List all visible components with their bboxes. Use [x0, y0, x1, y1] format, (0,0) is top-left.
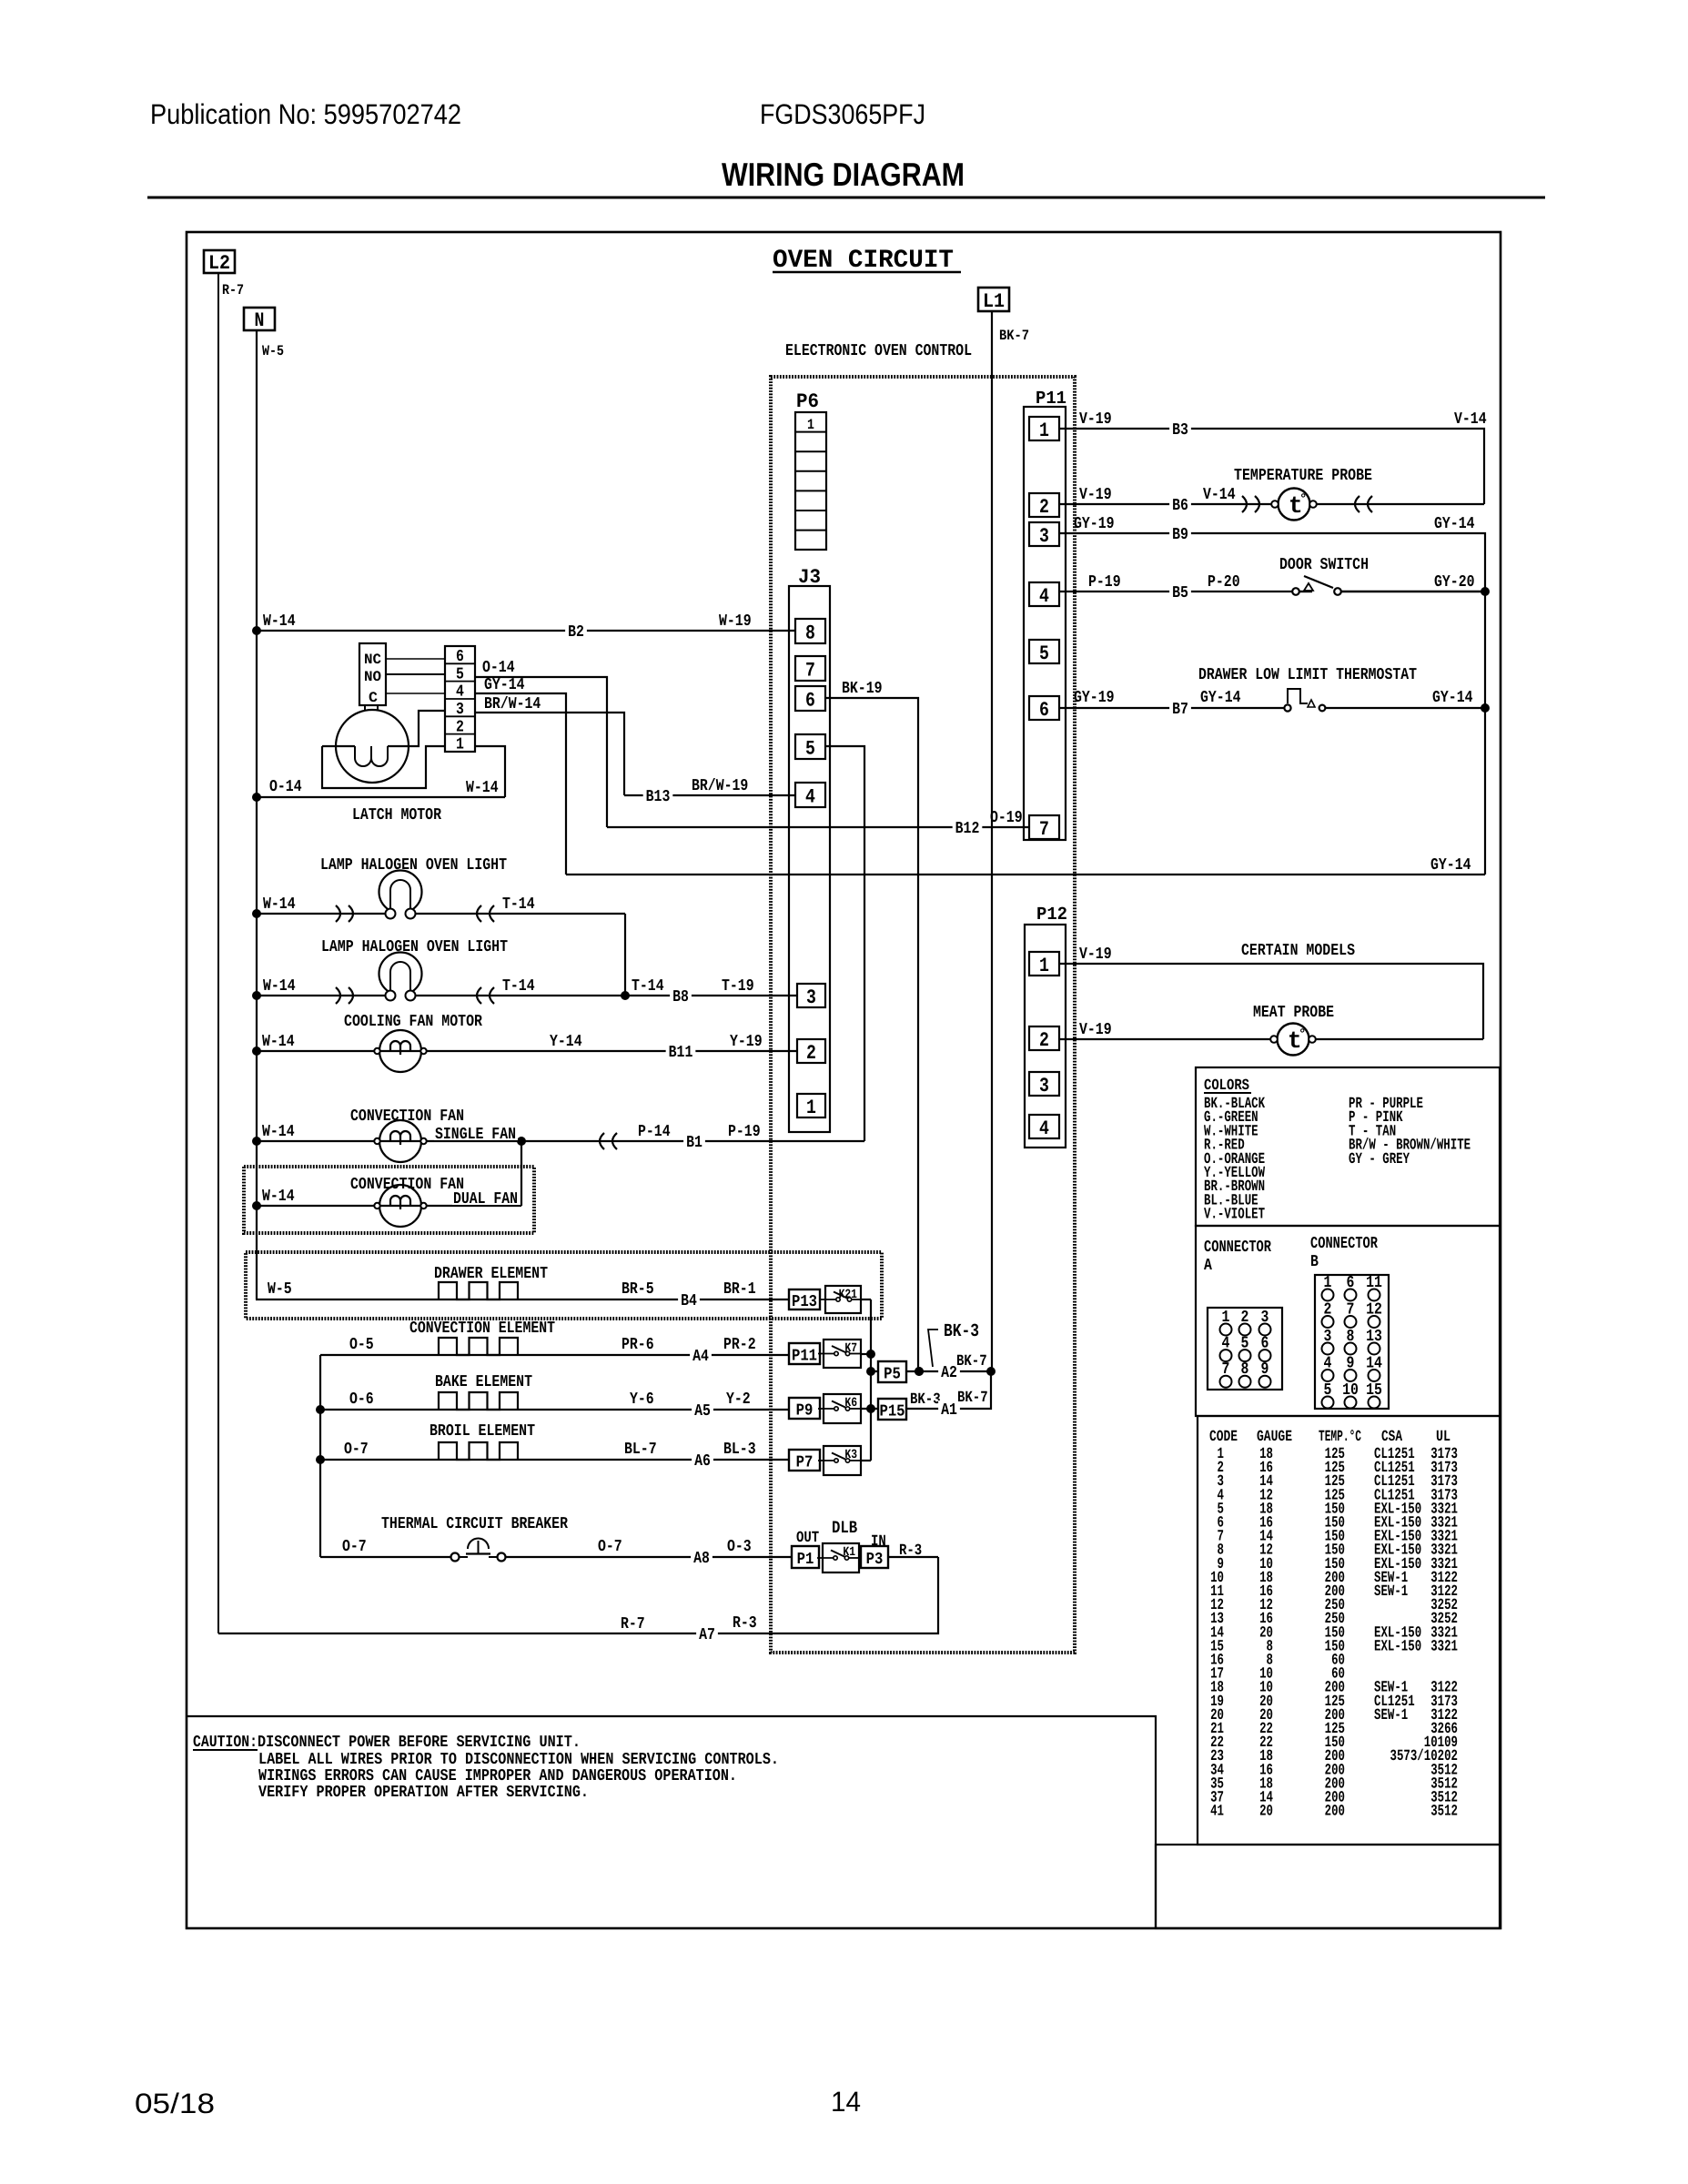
svg-text:ELECTRONIC OVEN CONTROL: ELECTRONIC OVEN CONTROL	[785, 342, 972, 360]
drawer element dashed box	[246, 1252, 882, 1319]
wire element common vertical	[319, 1355, 321, 1557]
svg-text:SEW-1: SEW-1	[1374, 1707, 1408, 1724]
wire latch pin3 BR/W-14 to B13	[475, 713, 624, 795]
connector B pin face	[1315, 1274, 1389, 1409]
svg-text:V.-VIOLET: V.-VIOLET	[1204, 1207, 1265, 1224]
wire B12 O-19 to P11 pin 7	[607, 826, 1029, 828]
svg-text:LATCH MOTOR: LATCH MOTOR	[352, 806, 441, 824]
svg-text:P6: P6	[796, 390, 819, 413]
svg-text:7: 7	[1039, 818, 1049, 841]
svg-text:5: 5	[1039, 642, 1049, 665]
convection fan single M3	[374, 1120, 426, 1162]
relay terminal P15	[878, 1399, 906, 1421]
svg-text:BK-3: BK-3	[910, 1391, 941, 1409]
wire dual convection fan row	[257, 1205, 521, 1207]
svg-text:P11: P11	[792, 1348, 817, 1366]
svg-text:B4: B4	[681, 1292, 697, 1310]
svg-text:BK-3: BK-3	[944, 1321, 979, 1342]
svg-text:T-14: T-14	[502, 895, 535, 914]
svg-text:P3: P3	[866, 1551, 884, 1569]
svg-text:SINGLE FAN: SINGLE FAN	[435, 1126, 516, 1144]
svg-text:R-3: R-3	[733, 1614, 757, 1633]
svg-text:W-5: W-5	[268, 1280, 292, 1299]
wire K6 to P15	[861, 1408, 878, 1410]
svg-text:1: 1	[1039, 420, 1049, 442]
svg-text:NO: NO	[364, 669, 381, 685]
wire GY-14 bottom run	[566, 874, 1485, 875]
wire P5 A2 BK-7 to L1 node	[906, 1370, 991, 1372]
label B3	[1169, 420, 1191, 437]
svg-text:O-5: O-5	[349, 1336, 374, 1354]
svg-text:CONVECTION FAN: CONVECTION FAN	[350, 1176, 464, 1194]
table header	[1209, 1429, 1450, 1446]
J3 pin 5	[795, 734, 825, 761]
svg-text:6: 6	[456, 648, 464, 666]
header rule	[147, 197, 1545, 199]
svg-text:O-7: O-7	[342, 1538, 367, 1556]
label B1	[683, 1133, 705, 1149]
svg-text:NC: NC	[364, 652, 381, 668]
wire cooling fan row to J3 pin 2	[257, 1050, 797, 1052]
svg-text:1: 1	[806, 1097, 816, 1119]
caution text	[193, 1734, 779, 1802]
svg-text:T-14: T-14	[502, 977, 535, 996]
wire K21 to bus	[861, 1299, 871, 1300]
svg-text:A6: A6	[694, 1452, 711, 1471]
wire J3 pin5 net to B1	[825, 746, 864, 1141]
svg-text:BL-3: BL-3	[723, 1441, 756, 1459]
svg-text:V-19: V-19	[1079, 410, 1112, 429]
wire P3 to R-3 return	[888, 1556, 938, 1558]
svg-text:BR-1: BR-1	[723, 1280, 756, 1299]
wire L2 R-7 vertical	[217, 273, 219, 1633]
wire P11 pin2 V-19 B6 temperature probe	[1059, 503, 1484, 505]
svg-text:BL-7: BL-7	[624, 1441, 657, 1459]
node L2	[204, 250, 235, 275]
svg-text:PR-6: PR-6	[622, 1336, 654, 1354]
svg-text:OUT: OUT	[796, 1530, 819, 1547]
svg-text:O-7: O-7	[598, 1538, 622, 1556]
label A4	[690, 1347, 712, 1363]
svg-text:B2: B2	[568, 623, 584, 642]
relay terminal P1	[792, 1546, 819, 1569]
svg-text:IN: IN	[871, 1533, 886, 1551]
wire P11 pin3 GY-19 B9 GY-14 net	[1059, 533, 1485, 875]
label A7	[696, 1625, 718, 1642]
P11 pin 3	[1029, 522, 1059, 548]
wire J3 pin6 BK-19 net	[825, 698, 918, 1371]
P12 pin 3	[1029, 1072, 1059, 1097]
svg-text:DRAWER ELEMENT: DRAWER ELEMENT	[434, 1265, 548, 1283]
table rows	[1210, 1446, 1458, 1821]
svg-text:B12: B12	[955, 820, 980, 838]
wire latch pin1 W-14 drop to O-14 wire	[475, 746, 505, 797]
wire W-14 B2 W-19 to J3 pin 8	[257, 630, 795, 632]
P11 pin 2	[1029, 493, 1059, 519]
relay contact K3	[818, 1446, 862, 1475]
label B7	[1169, 700, 1191, 716]
svg-text:COOLING FAN MOTOR: COOLING FAN MOTOR	[344, 1013, 482, 1031]
label B12	[953, 819, 983, 835]
svg-text:2: 2	[806, 1042, 816, 1065]
latch motor M1	[336, 705, 409, 783]
relay terminal P3	[861, 1546, 888, 1569]
svg-text:TEMP.°C: TEMP.°C	[1319, 1429, 1361, 1446]
svg-text:O-14: O-14	[482, 659, 515, 677]
svg-text:BK-19: BK-19	[842, 680, 883, 698]
svg-text:B7: B7	[1172, 701, 1188, 719]
convection fan dual M4	[374, 1185, 426, 1227]
svg-text:A8: A8	[693, 1550, 710, 1568]
svg-text:6: 6	[805, 690, 815, 713]
svg-text:P5: P5	[884, 1366, 901, 1384]
connector P12 outer box	[1025, 925, 1066, 1148]
svg-text:1: 1	[456, 736, 464, 754]
svg-text:CONVECTION FAN: CONVECTION FAN	[350, 1107, 464, 1126]
wire P11 pin6 GY-19 B7 thermostat GY-14	[1059, 707, 1285, 709]
connector splice >>	[336, 905, 340, 922]
svg-text:PR-2: PR-2	[723, 1336, 756, 1354]
node N	[244, 308, 275, 332]
relay contact K7	[818, 1340, 862, 1368]
svg-text:3: 3	[1039, 1075, 1049, 1097]
bake element	[439, 1392, 518, 1410]
svg-text:DRAWER LOW LIMIT THERMOSTAT: DRAWER LOW LIMIT THERMOSTAT	[1198, 666, 1417, 684]
svg-text:B6: B6	[1172, 497, 1188, 515]
svg-text:W-14: W-14	[263, 977, 296, 996]
connector splice <<	[477, 905, 481, 922]
wire latch motor right lead to pin 3	[388, 711, 445, 746]
relay terminal P7	[789, 1450, 820, 1472]
svg-text:B3: B3	[1172, 421, 1188, 440]
latch connector pin strip 6-1	[445, 646, 475, 754]
wire bake element row to relay P9	[320, 1409, 789, 1410]
relay terminal P9	[789, 1398, 820, 1421]
svg-text:P-19: P-19	[1088, 573, 1121, 591]
wire K7 to bus	[861, 1353, 871, 1355]
svg-text:B8: B8	[672, 988, 689, 1006]
label BK-3 with pointer	[928, 1321, 979, 1367]
label DUAL FAN	[452, 1191, 521, 1205]
wire lamp2 row to J3 pin 3	[257, 995, 797, 996]
svg-text:V-19: V-19	[1079, 486, 1112, 504]
relay terminal P13	[789, 1289, 820, 1311]
svg-text:TEMPERATURE PROBE: TEMPERATURE PROBE	[1234, 467, 1372, 485]
svg-text:O-7: O-7	[344, 1441, 369, 1459]
svg-text:GY-14: GY-14	[1200, 689, 1241, 707]
svg-text:W-14: W-14	[262, 1188, 295, 1206]
svg-text:UL: UL	[1436, 1429, 1450, 1446]
J3 pin 3	[797, 984, 825, 1009]
svg-text:P-19: P-19	[728, 1123, 761, 1141]
wire latch motor under-loop to pin 1	[322, 746, 445, 788]
connector splice <<	[600, 1133, 604, 1149]
svg-text:GY-19: GY-19	[1074, 515, 1115, 533]
connector splice <<	[477, 987, 481, 1004]
svg-text:WIRING DIAGRAM: WIRING DIAGRAM	[722, 156, 965, 193]
svg-text:14: 14	[831, 2086, 861, 2118]
wire P15 BK-3 A1 BK-7	[906, 1371, 991, 1409]
label A2	[938, 1363, 960, 1380]
svg-text:K21: K21	[839, 1288, 857, 1302]
svg-text:GY-19: GY-19	[1074, 689, 1115, 707]
svg-text:K7: K7	[844, 1341, 857, 1356]
outer border box	[187, 232, 1501, 1928]
wire latch pin4 GY-14 net	[475, 693, 566, 875]
svg-text:K1: K1	[843, 1545, 855, 1560]
svg-text:V-14: V-14	[1454, 410, 1487, 429]
label B2	[565, 622, 587, 639]
svg-text:VERIFY PROPER OPERATION AFTER: VERIFY PROPER OPERATION AFTER SERVICING.	[258, 1784, 589, 1802]
svg-text:THERMAL CIRCUIT BREAKER: THERMAL CIRCUIT BREAKER	[381, 1515, 568, 1533]
wire P11 pin4 P-19 B5 door switch GY-20	[1059, 591, 1293, 592]
P11 pin 4	[1029, 582, 1059, 608]
wire P12 pin1 V-19 certain models	[1059, 964, 1483, 1039]
svg-text:BR-5: BR-5	[622, 1280, 654, 1299]
wire gauge table box	[1198, 1416, 1500, 1845]
svg-text:W-14: W-14	[262, 1123, 295, 1141]
P12 pin 2	[1029, 1026, 1059, 1052]
wire O-14 from node N to W-14 drop	[257, 796, 505, 798]
svg-text:W-14: W-14	[262, 1033, 295, 1051]
relay terminal P5	[878, 1361, 906, 1384]
svg-text:3: 3	[1039, 525, 1049, 548]
svg-text:WIRINGS ERRORS CAN CAUSE IMPRO: WIRINGS ERRORS CAN CAUSE IMPROPER AND DA…	[258, 1767, 737, 1785]
label B4	[678, 1291, 700, 1308]
wire single convection fan row	[257, 1140, 864, 1142]
svg-text:2: 2	[1039, 1029, 1049, 1052]
connector splice >>	[1242, 496, 1247, 512]
svg-text:FGDS3065PFJ: FGDS3065PFJ	[760, 98, 925, 130]
wire P12 pin2 V-19 meat probe	[1059, 1038, 1483, 1040]
wire convection element row to relay P11	[320, 1354, 789, 1356]
svg-text:BROIL ELEMENT: BROIL ELEMENT	[430, 1422, 535, 1441]
wire K3 to bus	[861, 1460, 871, 1461]
svg-text:P9: P9	[796, 1402, 814, 1421]
wire latch pin5 O-14 to B12 net	[475, 677, 607, 827]
thermal circuit breaker SW1	[451, 1539, 506, 1562]
svg-text:GAUGE: GAUGE	[1257, 1429, 1292, 1446]
label B8	[670, 987, 692, 1004]
svg-text:20: 20	[1259, 1804, 1273, 1821]
svg-text:V-19: V-19	[1079, 1021, 1112, 1039]
svg-text:4: 4	[456, 683, 464, 702]
latch switch box NC NO C	[359, 643, 386, 706]
svg-text:CODE: CODE	[1209, 1429, 1238, 1446]
svg-text:L2: L2	[208, 252, 230, 275]
svg-text:LAMP HALOGEN OVEN LIGHT: LAMP HALOGEN OVEN LIGHT	[321, 938, 508, 956]
svg-text:CERTAIN MODELS: CERTAIN MODELS	[1241, 942, 1355, 960]
electronic oven control dashed box	[771, 377, 1075, 1653]
svg-text:B1: B1	[686, 1134, 702, 1152]
svg-text:GY-20: GY-20	[1434, 573, 1475, 591]
P11 pin 1	[1029, 417, 1059, 442]
wire latch motor left lead	[322, 745, 355, 747]
svg-text:W-19: W-19	[719, 612, 752, 631]
convection element	[439, 1338, 518, 1355]
svg-text:BR/W-14: BR/W-14	[484, 695, 541, 713]
svg-text:B9: B9	[1172, 526, 1188, 544]
P11 pin 7	[1029, 815, 1059, 841]
svg-text:Y-19: Y-19	[730, 1033, 763, 1051]
relay contact K21	[820, 1286, 862, 1313]
svg-text:W-14: W-14	[466, 779, 499, 797]
svg-text:1: 1	[1039, 955, 1049, 977]
P12 pin 4	[1029, 1115, 1059, 1140]
svg-text:A5: A5	[694, 1402, 711, 1421]
svg-text:°: °	[1299, 492, 1307, 507]
svg-text:P7: P7	[796, 1454, 814, 1472]
J3 pin 6	[795, 686, 825, 713]
relay terminal P11	[789, 1343, 820, 1366]
wire L1 BK-7 vertical	[991, 311, 993, 1371]
svg-text:V-19: V-19	[1079, 945, 1112, 964]
wire dual fan vertical to single fan junction	[521, 1141, 522, 1206]
svg-text:7: 7	[805, 660, 815, 682]
broil element	[439, 1442, 518, 1460]
bottom right sub box	[1156, 1845, 1500, 1928]
svg-text:BK-7: BK-7	[956, 1353, 987, 1370]
svg-text:O-14: O-14	[269, 778, 302, 796]
wire drawer element row to P13	[256, 1299, 789, 1300]
svg-text:C: C	[369, 690, 378, 706]
svg-text:2: 2	[1039, 496, 1049, 519]
svg-text:Publication No: 5995702742: Publication No: 5995702742	[150, 98, 461, 130]
svg-text:Y-14: Y-14	[550, 1033, 582, 1051]
svg-text:O-3: O-3	[727, 1538, 752, 1556]
relay contact K1 DLB	[817, 1543, 860, 1572]
wire lamp1 row	[257, 913, 625, 915]
svg-text:GY-14: GY-14	[484, 676, 525, 694]
label A8	[691, 1549, 713, 1565]
svg-text:CONVECTION ELEMENT: CONVECTION ELEMENT	[409, 1319, 555, 1338]
J3 pin 7	[795, 656, 825, 682]
J3 pin 2	[797, 1039, 825, 1065]
node L1	[978, 288, 1009, 313]
svg-text:41: 41	[1210, 1804, 1224, 1821]
svg-text:8: 8	[805, 622, 815, 645]
wire T-14 vertical to lamp2 row	[624, 914, 626, 996]
svg-text:W-14: W-14	[263, 612, 296, 631]
svg-text:MEAT PROBE: MEAT PROBE	[1253, 1004, 1334, 1022]
svg-text:°: °	[1299, 1027, 1306, 1042]
svg-text:4: 4	[1039, 585, 1049, 608]
svg-text:L1: L1	[983, 290, 1005, 313]
svg-text:DOOR SWITCH: DOOR SWITCH	[1279, 556, 1369, 574]
P12 pin 1	[1029, 952, 1059, 977]
svg-text:4: 4	[1039, 1117, 1049, 1140]
svg-text:R-7: R-7	[222, 282, 244, 298]
svg-text:SEW-1: SEW-1	[1374, 1583, 1408, 1601]
svg-text:Y-6: Y-6	[630, 1390, 654, 1409]
svg-text:1: 1	[807, 417, 814, 433]
svg-text:P12: P12	[1036, 905, 1067, 925]
connector P6	[795, 412, 826, 550]
wire bus to P5	[871, 1370, 878, 1372]
svg-text:DLB: DLB	[832, 1518, 857, 1538]
meat probe	[1270, 1024, 1316, 1056]
svg-text:P-20: P-20	[1208, 573, 1240, 591]
J3 pin 1	[797, 1094, 825, 1119]
lamp halogen oven light 1	[379, 871, 422, 919]
svg-text:3: 3	[806, 986, 816, 1009]
svg-text:6: 6	[1039, 699, 1049, 722]
svg-text:CSA: CSA	[1381, 1429, 1403, 1446]
svg-text:4: 4	[805, 786, 815, 809]
svg-text:LAMP HALOGEN OVEN LIGHT: LAMP HALOGEN OVEN LIGHT	[320, 856, 507, 875]
label A6	[692, 1451, 713, 1468]
wire broil element row to relay P7	[320, 1459, 789, 1461]
svg-text:GY - GREY: GY - GREY	[1349, 1151, 1410, 1168]
svg-text:W-14: W-14	[263, 895, 296, 914]
J3 pin 4	[795, 783, 825, 809]
drawer low limit thermostat	[1284, 689, 1325, 712]
P11 pin 5	[1029, 640, 1059, 665]
svg-text:BK-7: BK-7	[957, 1390, 988, 1407]
svg-text:B5: B5	[1172, 584, 1188, 602]
wire R-7 A7 R-3 return	[218, 1557, 938, 1633]
svg-text:P13: P13	[792, 1293, 817, 1311]
svg-text:O-6: O-6	[349, 1390, 374, 1409]
svg-text:A7: A7	[699, 1626, 715, 1644]
svg-text:B13: B13	[646, 788, 671, 806]
cooling fan motor M2	[374, 1030, 426, 1072]
svg-text:A1: A1	[941, 1401, 957, 1420]
svg-text:5: 5	[805, 738, 815, 761]
svg-text:OVEN CIRCUIT: OVEN CIRCUIT	[773, 247, 954, 275]
svg-text:BK-7: BK-7	[999, 328, 1029, 344]
label SINGLE FAN	[434, 1127, 518, 1140]
connector A pin face	[1208, 1308, 1282, 1390]
svg-text:Y-2: Y-2	[726, 1390, 751, 1409]
svg-text:A2: A2	[941, 1364, 957, 1382]
P11 pin 6	[1029, 696, 1059, 722]
label B9	[1169, 525, 1191, 541]
svg-text:GY-14: GY-14	[1430, 856, 1471, 875]
svg-text:BAKE ELEMENT: BAKE ELEMENT	[435, 1373, 532, 1391]
svg-text:P1: P1	[797, 1551, 814, 1569]
svg-text:200: 200	[1325, 1804, 1345, 1821]
label A5	[692, 1401, 713, 1418]
label B13	[643, 787, 673, 804]
svg-text:A4: A4	[692, 1348, 709, 1366]
svg-text:P15: P15	[879, 1403, 905, 1421]
convection fan dual dashed box	[244, 1167, 534, 1233]
J3 pin 8	[795, 619, 825, 645]
drawer element	[439, 1282, 518, 1299]
svg-text:BR/W-19: BR/W-19	[692, 777, 748, 795]
svg-text:EXL-150: EXL-150	[1374, 1638, 1421, 1655]
relay contact K6	[818, 1394, 862, 1423]
svg-text:GY-14: GY-14	[1432, 689, 1473, 707]
svg-text:T-19: T-19	[722, 977, 754, 996]
temperature probe	[1271, 489, 1317, 521]
svg-text:DUAL FAN: DUAL FAN	[453, 1190, 518, 1208]
svg-text:CONNECTOR: CONNECTOR	[1204, 1239, 1271, 1257]
door switch S1	[1292, 576, 1341, 595]
colors legend box	[1196, 1067, 1500, 1226]
connector J3 outer box	[789, 586, 830, 1132]
svg-text:N: N	[255, 309, 265, 332]
lamp halogen oven light 2	[379, 953, 422, 1001]
svg-text:DISCONNECT POWER BEFORE SERVIC: DISCONNECT POWER BEFORE SERVICING UNIT.	[258, 1734, 581, 1752]
svg-text:K6: K6	[844, 1396, 857, 1410]
svg-text:05/18: 05/18	[135, 2088, 215, 2119]
svg-text:5: 5	[456, 665, 464, 683]
wire N W-5 vertical	[256, 330, 258, 1299]
svg-text:3512: 3512	[1430, 1804, 1458, 1821]
svg-text:2: 2	[456, 718, 464, 736]
